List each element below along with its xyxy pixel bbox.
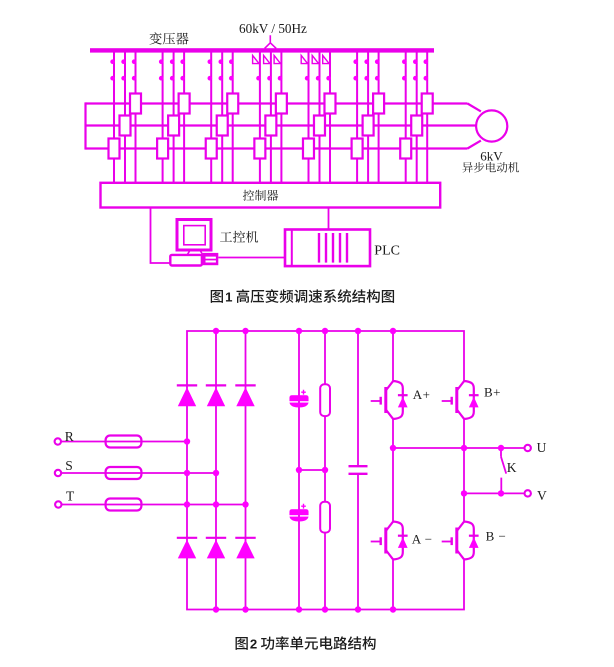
svg-text:B −: B − [486, 529, 507, 544]
svg-text:U: U [537, 440, 547, 455]
svg-text:A −: A − [412, 531, 433, 546]
svg-text:2: 2 [250, 637, 257, 652]
svg-text:T: T [66, 488, 75, 503]
svg-text:K: K [507, 460, 517, 475]
svg-text:PLC: PLC [374, 244, 400, 259]
svg-text:B+: B+ [484, 385, 501, 400]
svg-text:6kV: 6kV [480, 148, 503, 163]
svg-text:V: V [537, 488, 547, 503]
svg-text:1: 1 [225, 290, 232, 305]
svg-text:R: R [65, 429, 74, 444]
svg-text:A+: A+ [413, 387, 431, 402]
svg-text:S: S [65, 458, 73, 473]
svg-text:60kV / 50Hz: 60kV / 50Hz [239, 21, 307, 36]
